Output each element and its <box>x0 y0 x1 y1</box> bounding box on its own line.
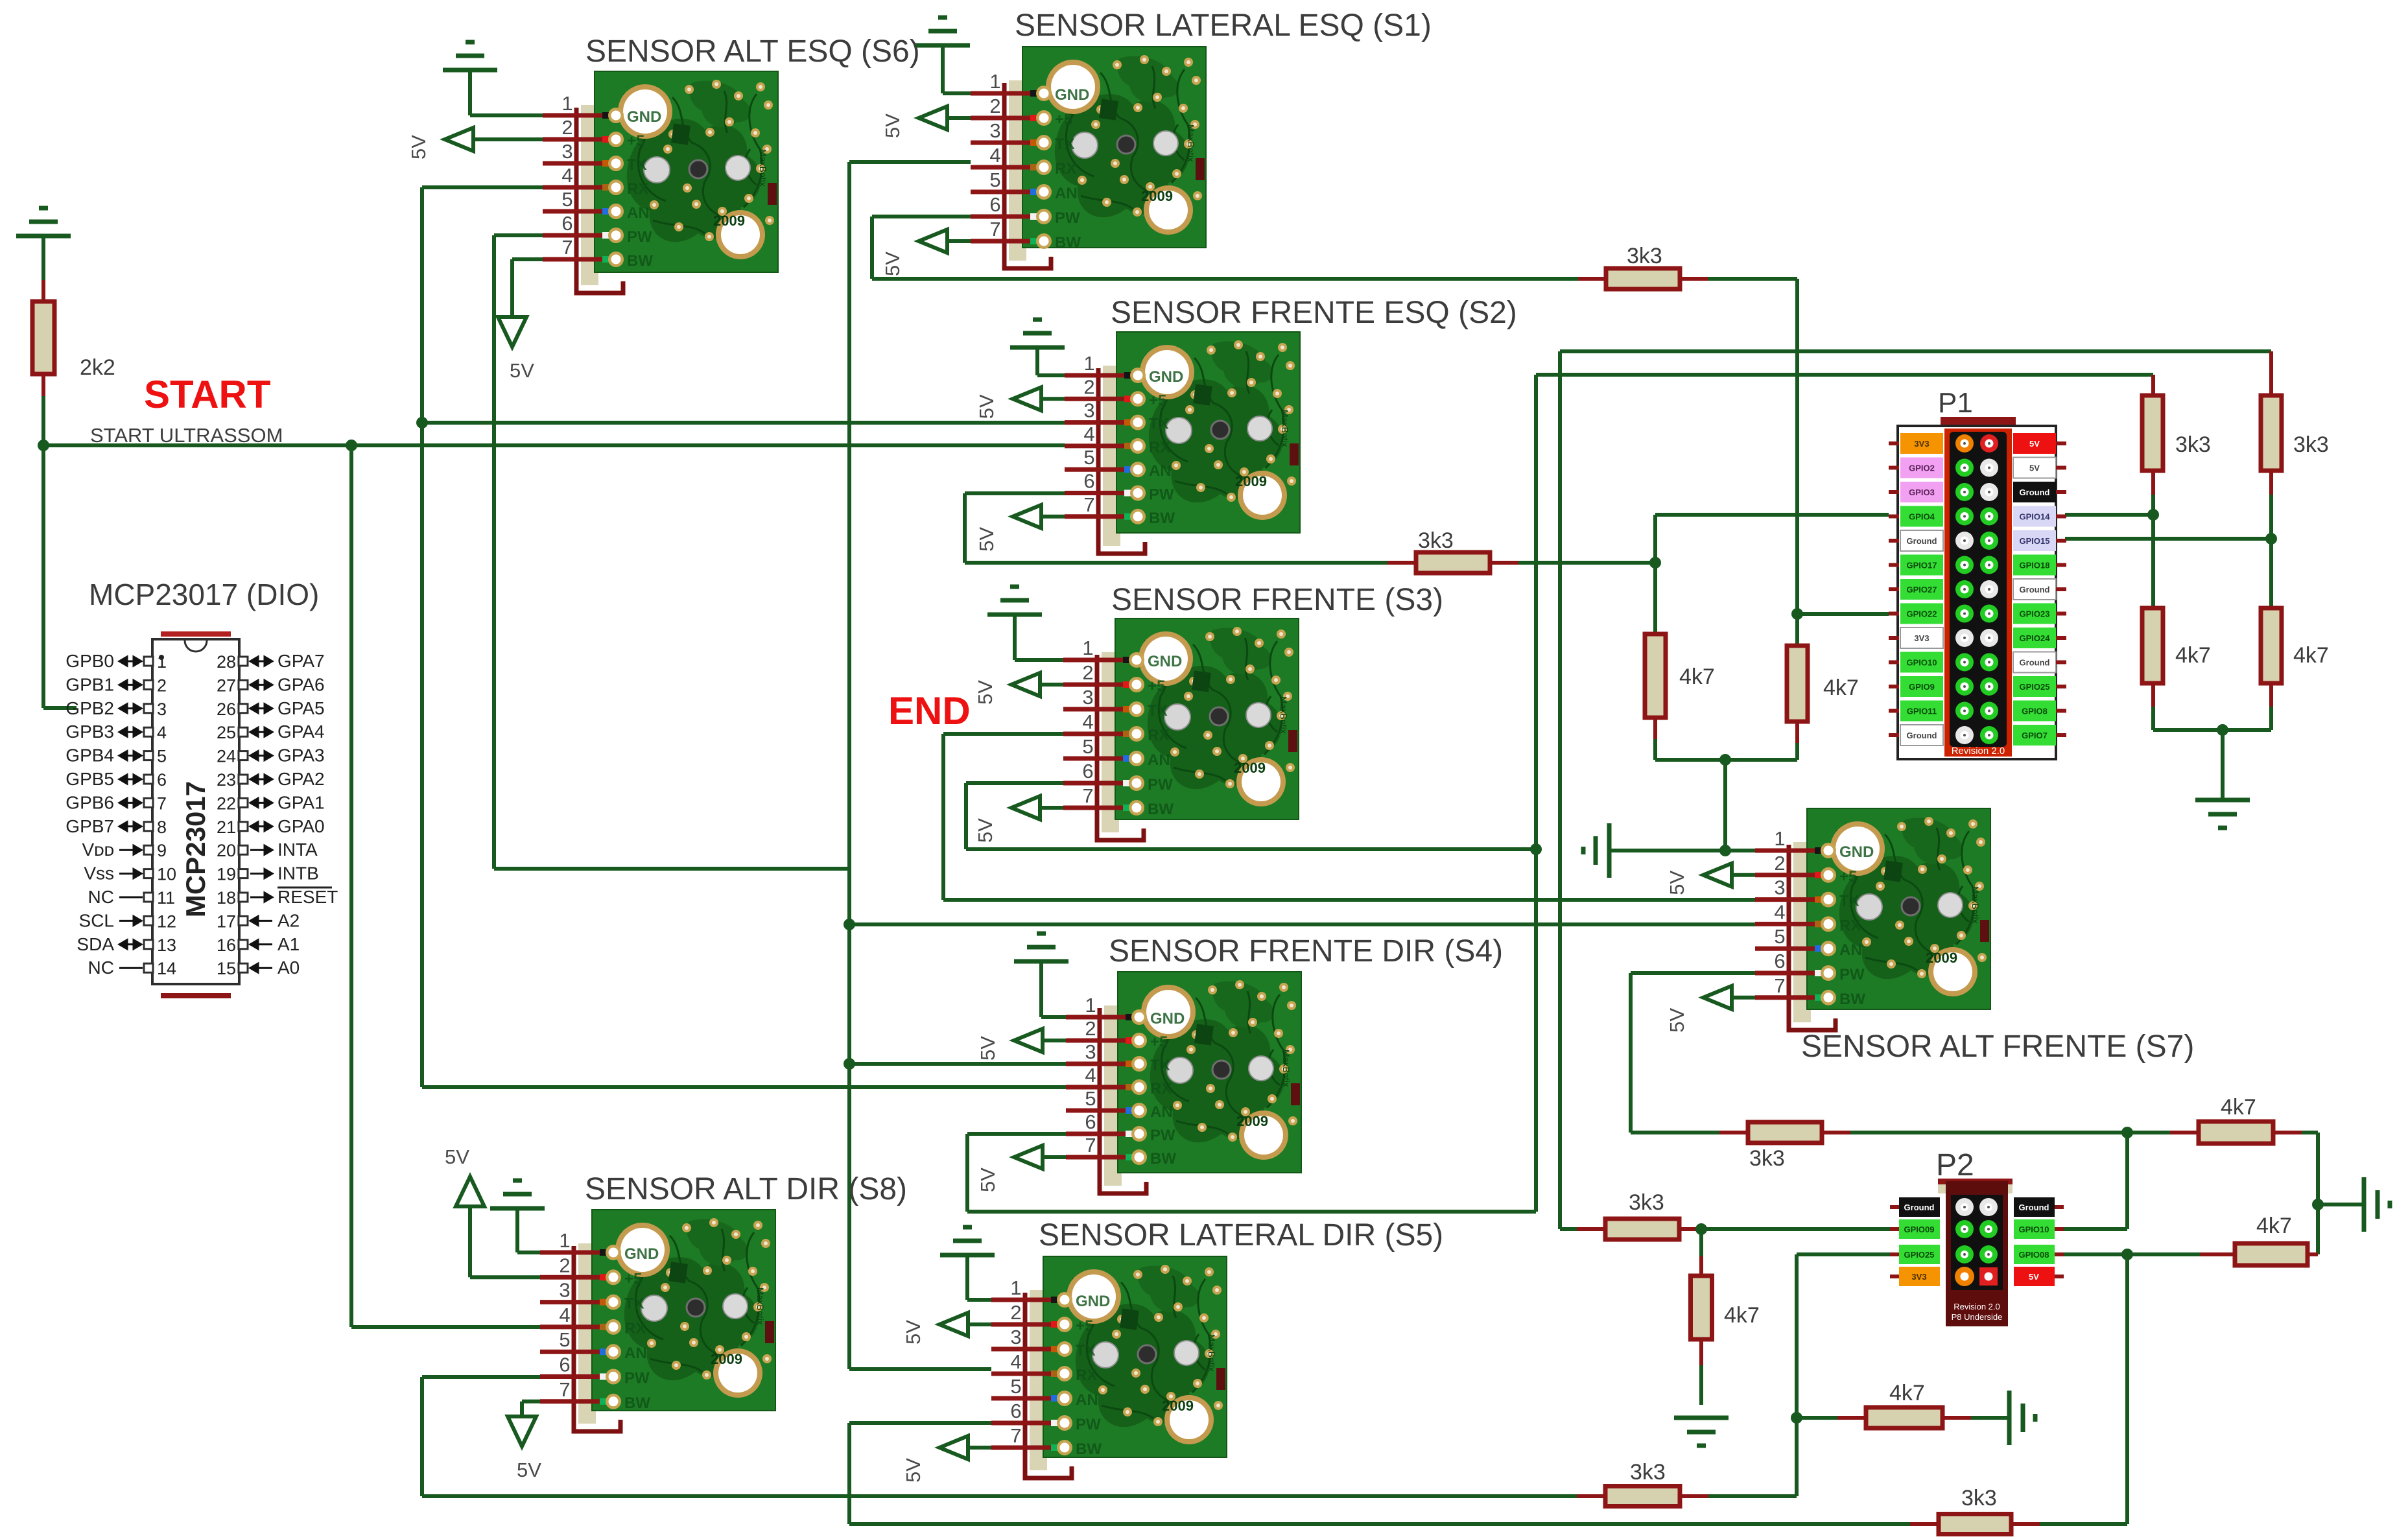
P1 row 4 left label GPIO4 <box>1900 506 1943 527</box>
P2 row 1 left label Ground <box>1899 1197 1940 1217</box>
P1 row 13 left label Ground <box>1900 725 1943 746</box>
ground under P2 left 4k7 <box>1674 1418 1729 1446</box>
svg-text:GPIO2: GPIO2 <box>1909 464 1935 473</box>
wire 5V arrow to S6 pin2 <box>472 137 543 141</box>
power 5V arrow for S3 pin2 <box>1011 673 1040 696</box>
svg-text:+5: +5 <box>1839 868 1857 886</box>
MCP23017 pin 26 (right) <box>239 704 248 713</box>
wire B bottom run <box>849 1522 1910 1526</box>
svg-text:5V: 5V <box>1666 871 1688 895</box>
sensor S3 pin 6 stub <box>1063 781 1132 786</box>
wire vertical 3281 lower segment to 3k3 B <box>2125 1254 2129 1524</box>
svg-text:SENSOR LATERAL ESQ (S1): SENSOR LATERAL ESQ (S1) <box>1015 8 1432 43</box>
svg-text:RX: RX <box>1149 439 1170 456</box>
wire 3k3 row1747 to junction 3281 <box>1850 1131 2127 1134</box>
sensor S6 pin 4 stub <box>543 185 611 190</box>
P1 row 4 right label GPIO14 <box>2013 506 2056 527</box>
svg-text:Ground: Ground <box>2020 658 2050 668</box>
svg-text:RX: RX <box>1150 1080 1172 1098</box>
sensor S3 pin 5 stub <box>1063 757 1132 761</box>
svg-text:6: 6 <box>1082 760 1093 782</box>
resistor lead 3k3 number2 top <box>2269 351 2273 395</box>
sensor S3 pin 2 stub <box>1063 683 1132 687</box>
resistor lead 3k3 B left <box>1910 1522 1939 1526</box>
svg-text:2: 2 <box>1774 852 1785 875</box>
sensor S8 connector strip <box>578 1243 596 1424</box>
wire 5V arrow to S7 pin2 <box>1730 873 1755 877</box>
wire S7 ground node to sideways ground <box>1609 849 1725 852</box>
sensor S6 module (SENSOR ALT ESQ (S6)) <box>543 34 920 293</box>
resistor lead right 3k3 top <box>1680 277 1708 281</box>
sensor S6 PCB <box>595 71 778 272</box>
sensor S6 pin 1 stub <box>543 113 611 118</box>
junction 2771 centre 4k7 <box>1791 1412 1802 1424</box>
svg-text:Revision 2.0: Revision 2.0 <box>1954 1302 2000 1311</box>
svg-text:START ULTRASSOM: START ULTRASSOM <box>90 424 283 447</box>
svg-text:GPIO10: GPIO10 <box>1907 658 1937 668</box>
MCP23017 pin 16 (right) <box>239 940 248 949</box>
resistor lead 3k3 row1747 right <box>1822 1131 1850 1134</box>
sensor S6 pin 3 stub <box>543 161 611 166</box>
svg-text:7: 7 <box>1774 974 1785 997</box>
wire ground to S1 pin1 <box>941 45 945 93</box>
wire GPIO14 down to 4k7 number1 <box>2151 515 2155 608</box>
wire S6 pin6 down to bus <box>494 233 543 237</box>
svg-text:3k3: 3k3 <box>2293 432 2329 457</box>
P1 row 2 left label GPIO2 <box>1900 458 1943 478</box>
sensor S2 pin 4 stub <box>1065 443 1133 448</box>
svg-text:1: 1 <box>989 70 1000 93</box>
sensor S2 connector strip <box>1103 366 1120 546</box>
wire centre 4k7 to sideways ground <box>1971 1416 2009 1420</box>
svg-text:MCP23017: MCP23017 <box>180 781 211 917</box>
sensor S5 pin 5 stub <box>991 1396 1060 1401</box>
wire S8 pin6 down <box>422 1375 540 1379</box>
svg-text:BW: BW <box>1076 1440 1102 1458</box>
svg-text:RESET: RESET <box>277 887 338 907</box>
resistor R4 3k3 right column1 <box>2142 395 2163 471</box>
svg-text:SENSOR FRENTE ESQ (S2): SENSOR FRENTE ESQ (S2) <box>1111 296 1517 330</box>
sensor S1 pin 7 stub <box>971 239 1039 244</box>
wire 5V arrow to S3 pin7 <box>1039 806 1063 810</box>
wire chain vertical x=651 <box>420 187 424 1087</box>
wire P2-left pulldown down <box>1699 1229 1703 1256</box>
svg-text:7: 7 <box>1082 784 1093 807</box>
svg-text:5V: 5V <box>510 359 534 382</box>
P1 row 8 left label GPIO22 <box>1900 604 1943 624</box>
svg-text:GPB4: GPB4 <box>65 746 114 766</box>
svg-text:1: 1 <box>1082 637 1093 659</box>
resistor lead 3k3 number1 bottom <box>2151 471 2155 495</box>
svg-text:+5: +5 <box>624 1270 642 1287</box>
sensor S5 connector strip <box>1030 1290 1047 1470</box>
sensor S6 pin 5 stub <box>543 209 611 214</box>
wire S7 pin6 to vertical 2515 <box>1631 971 1755 975</box>
wire 4k7 bottoms joining <box>1655 758 1797 762</box>
svg-text:21: 21 <box>217 817 236 837</box>
resistor lead 3k3 A right <box>1680 1494 1708 1498</box>
P1 row 1 left label 3V3 <box>1900 433 1943 454</box>
wire 5V arrow to S1 pin7 <box>946 239 971 243</box>
svg-text:2: 2 <box>157 676 167 695</box>
svg-text:TX: TX <box>1148 702 1168 720</box>
svg-text:23: 23 <box>217 770 236 790</box>
wire top run to 3k3 number1 <box>1536 373 2153 377</box>
P1 row 1 right label 5V <box>2013 433 2056 454</box>
wire S2 pin6 to 3k3 mid <box>965 491 1065 495</box>
svg-text:GPIO3: GPIO3 <box>1909 488 1935 497</box>
sensor S7 pin 3 stub <box>1755 897 1824 902</box>
svg-text:Ground: Ground <box>1904 1203 1935 1212</box>
sensor S1 PCB <box>1022 47 1206 248</box>
wire S5 pin6 down <box>849 1421 991 1425</box>
junction S7 ground node <box>1719 845 1731 856</box>
svg-text:7: 7 <box>1085 1134 1096 1157</box>
svg-text:+5: +5 <box>1055 111 1072 128</box>
sensor S3 PCB <box>1115 618 1299 819</box>
sensor S6 pin 7 stub <box>543 257 611 262</box>
wire P1 GPIO15 row <box>2065 537 2271 541</box>
wire 3k3 P2-left to P2 GPIO row2 <box>1701 1227 1890 1231</box>
wire 4k7 bottoms to ground stem <box>2153 728 2271 732</box>
P1 row 3 left label GPIO3 <box>1900 482 1943 502</box>
svg-text:5: 5 <box>157 747 167 766</box>
svg-text:1: 1 <box>1774 827 1785 850</box>
svg-text:4: 4 <box>1010 1350 1021 1373</box>
svg-text:AN: AN <box>1055 185 1078 202</box>
sensor S1 connector strip <box>1009 80 1026 261</box>
MCP23017 pin 28 (right) <box>239 657 248 666</box>
sensor S8 pin 1 stub <box>540 1251 609 1255</box>
P1 row 12 right label GPIO8 <box>2013 701 2056 722</box>
sensor S2 module (SENSOR FRENTE ESQ (S2)) <box>1065 296 1517 554</box>
sensor S7 connector strip <box>1793 842 1811 1022</box>
resistor R15 4k7 centre <box>1866 1407 1942 1428</box>
svg-text:3: 3 <box>1085 1040 1096 1063</box>
svg-text:2: 2 <box>1085 1017 1096 1040</box>
svg-text:GPA4: GPA4 <box>277 722 325 742</box>
MCP23017 pin 11 (left) <box>144 893 153 902</box>
svg-text:BW: BW <box>627 252 653 270</box>
wire down to S7 ground node <box>1723 760 1727 851</box>
svg-text:GPIO25: GPIO25 <box>2020 682 2050 692</box>
svg-text:+5: +5 <box>1076 1317 1093 1335</box>
wire centre 4k7 left lead <box>1797 1416 1837 1420</box>
svg-text:Ground: Ground <box>1907 731 1937 740</box>
sensor S2 pin 7 stub <box>1065 514 1133 519</box>
sensor S4 pin 2 stub <box>1066 1039 1135 1043</box>
power 5V arrow for S6 pin2 <box>445 128 473 151</box>
svg-text:GND: GND <box>1055 86 1089 104</box>
svg-text:6: 6 <box>1085 1110 1096 1133</box>
svg-text:SENSOR ALT FRENTE (S7): SENSOR ALT FRENTE (S7) <box>1801 1029 2194 1064</box>
sensor S5 pin 6 stub <box>991 1421 1060 1426</box>
wire ground to S3 pin1 <box>1013 615 1017 660</box>
wire S6 pin4 to chain vertical <box>422 185 543 189</box>
P1 row 12 left label GPIO11 <box>1900 701 1943 722</box>
wire to sideways ground right <box>2318 1203 2364 1206</box>
resistor R6 4k7 right column1 <box>2142 608 2163 683</box>
svg-text:2k2: 2k2 <box>80 355 115 380</box>
power 5V arrow for S4 pin2 <box>1014 1029 1043 1052</box>
P1 row 7 pin holes <box>1955 580 1974 598</box>
sensor S4 PCB <box>1118 972 1301 1173</box>
svg-text:3: 3 <box>561 140 572 163</box>
svg-text:GPA6: GPA6 <box>277 674 325 694</box>
svg-text:INTB: INTB <box>277 863 319 884</box>
P1 row 7 left label GPIO27 <box>1900 579 1943 600</box>
MCP23017 pin 17 (right) <box>239 916 248 925</box>
ground at 2k2 top <box>16 208 71 236</box>
svg-text:5V: 5V <box>975 394 998 419</box>
sensor S3 pin 1 stub <box>1063 658 1132 663</box>
junction START net at 2k2 <box>38 440 49 451</box>
svg-text:+5: +5 <box>1149 392 1166 409</box>
svg-text:GPIO9: GPIO9 <box>1909 682 1935 692</box>
P1 row 2 pin holes <box>1955 459 1974 477</box>
svg-text:TX: TX <box>1055 135 1075 153</box>
junction RX bus at S7 pin4 branch <box>844 919 855 930</box>
resistor lead 4k7 number2 bottom <box>2269 684 2273 707</box>
MCP23017 pin 8 (left) <box>144 822 153 831</box>
svg-text:5V: 5V <box>902 1458 925 1483</box>
wire chain branch to S2 pin3 <box>422 421 1065 425</box>
svg-text:Vss: Vss <box>84 863 114 884</box>
svg-text:5: 5 <box>559 1328 570 1351</box>
resistor R10 3k3 row1747 <box>1748 1122 1822 1143</box>
svg-text:3: 3 <box>1083 399 1094 422</box>
svg-text:GPIO8: GPIO8 <box>2022 707 2048 716</box>
P1 row 4 pin holes <box>1955 508 1974 526</box>
MCP23017 pin 23 (right) <box>239 775 248 784</box>
svg-text:Revision 2.0: Revision 2.0 <box>1952 746 2005 757</box>
MCP23017 pin 22 (right) <box>239 798 248 807</box>
svg-text:4k7: 4k7 <box>2256 1214 2292 1238</box>
svg-text:24: 24 <box>217 747 236 766</box>
svg-text:4k7: 4k7 <box>2293 643 2329 668</box>
svg-text:5V: 5V <box>2029 439 2040 449</box>
svg-text:6: 6 <box>1010 1400 1021 1422</box>
wire 3k3 top to vertical 2772 <box>1708 277 1797 281</box>
power 5V arrow for S7 pin7 <box>1703 986 1732 1009</box>
sensor S5 pin 1 stub <box>991 1298 1060 1302</box>
svg-text:+5: +5 <box>1150 1033 1168 1051</box>
MCP23017 pin 14 (left) <box>144 963 153 972</box>
ground for sensor S2 <box>1010 320 1065 347</box>
junction RX bus at S4 pin3 branch <box>844 1058 855 1070</box>
svg-text:SCL: SCL <box>79 910 114 930</box>
wire 4k7 mid-right to junction 3281 <box>2127 1252 2200 1256</box>
junction 4k7 bottoms <box>1719 754 1731 766</box>
svg-text:3: 3 <box>1082 686 1093 709</box>
wire 4k7-left column vertical <box>1653 515 1657 634</box>
P1 row 11 left label GPIO9 <box>1900 676 1943 697</box>
svg-text:1: 1 <box>157 652 167 672</box>
svg-text:RX: RX <box>1055 160 1076 178</box>
sensor S2 pin 5 stub <box>1065 467 1133 472</box>
sensor S7 pin 1 stub <box>1755 849 1824 853</box>
junction 3281/1935 <box>2121 1249 2133 1260</box>
svg-text:7: 7 <box>561 236 572 259</box>
svg-text:SENSOR ALT DIR (S8): SENSOR ALT DIR (S8) <box>585 1172 907 1206</box>
resistor R8 4k7 under P1 left <box>1645 634 1666 718</box>
sensor S4 pin 5 stub <box>1066 1109 1135 1113</box>
svg-text:3: 3 <box>157 699 167 719</box>
svg-text:GND: GND <box>627 108 661 126</box>
svg-text:5: 5 <box>1083 446 1094 469</box>
sensor S2 PCB <box>1116 332 1300 533</box>
junction chain at S2 pin3 branch <box>416 417 428 429</box>
svg-text:Ground: Ground <box>2019 1203 2049 1212</box>
P1 row 8 pin holes <box>1955 605 1974 623</box>
P1 row 5 left label Ground <box>1900 530 1943 551</box>
wire 5V arrow to S3 pin2 <box>1039 683 1063 687</box>
wire vertical 2369 <box>1534 375 1538 1212</box>
junction GPIO4 column <box>1649 557 1661 569</box>
svg-text:4k7: 4k7 <box>1889 1381 1925 1405</box>
power 5V arrow for S1 pin2 <box>919 106 947 130</box>
svg-text:12: 12 <box>157 911 176 931</box>
svg-text:3: 3 <box>559 1279 570 1302</box>
wire vertical 2771 <box>1795 1254 1799 1496</box>
sensor S4 connector strip <box>1104 1005 1122 1186</box>
sensor S5 pin 4 stub <box>991 1372 1060 1376</box>
power 5V arrow for S2 pin2 <box>1013 387 1041 410</box>
sensor S5 pin 2 stub <box>991 1322 1060 1327</box>
ground for sensor S1 <box>915 18 970 45</box>
wire 3k3 mid to GPIO4 column <box>1518 561 1655 565</box>
wire vertical 2772 down to 4k7 <box>1795 279 1799 646</box>
svg-text:Vᴅᴅ: Vᴅᴅ <box>82 840 114 860</box>
MCP23017 pin 25 (right) <box>239 727 248 736</box>
resistor lead left 3k3 top <box>1578 277 1606 281</box>
MCP23017 pin 12 (left) <box>144 916 153 925</box>
resistor lead right 3k3 mid <box>1490 561 1518 565</box>
wire 3k3 A to vertical 2771 <box>1708 1494 1797 1498</box>
P2 row 4 left label 3V3 <box>1899 1267 1940 1286</box>
svg-text:P1: P1 <box>1938 387 1973 419</box>
resistor R9 4k7 under P1 right <box>1787 646 1808 722</box>
svg-text:PW: PW <box>1149 486 1174 504</box>
svg-text:+5: +5 <box>627 132 644 150</box>
wire P1 GPIO4 row to 4k7-left column <box>1655 513 1889 517</box>
svg-text:5: 5 <box>1774 925 1785 948</box>
ground for sensor S5 <box>940 1227 995 1255</box>
svg-text:5V: 5V <box>2029 1272 2039 1282</box>
svg-text:19: 19 <box>217 865 236 884</box>
sensor S3 pin 3 stub <box>1063 707 1132 712</box>
svg-text:A1: A1 <box>277 934 300 954</box>
sensor S8 pin 4 stub <box>540 1324 609 1329</box>
svg-text:P2: P2 <box>1936 1148 1974 1182</box>
power 5V arrow for S4 pin7 <box>1014 1145 1043 1169</box>
svg-text:5V: 5V <box>881 113 904 138</box>
P1 row 10 left label GPIO10 <box>1900 652 1943 673</box>
svg-text:GPB2: GPB2 <box>65 698 114 718</box>
ground for sensor S4 <box>1014 934 1068 961</box>
svg-text:TX: TX <box>1839 893 1859 910</box>
MCP23017 pin 5 (left) <box>144 751 153 760</box>
sensor S1 pin 1 stub <box>971 91 1039 96</box>
P1 row 2 right label 5V <box>2013 458 2056 478</box>
svg-text:4: 4 <box>1083 423 1094 445</box>
power 5V up-arrow for S8 pin2 <box>456 1177 484 1206</box>
wire RX bus branch to S7 pin4 <box>849 922 1755 926</box>
P1 row 9 right label GPIO24 <box>2013 628 2056 648</box>
P1 row 6 pin holes <box>1955 556 1974 574</box>
svg-text:3k3: 3k3 <box>1418 528 1454 553</box>
svg-text:BW: BW <box>1839 991 1865 1008</box>
wire START net down to MCP23017 GPB2 <box>41 445 45 708</box>
P1 row 8 right label GPIO23 <box>2013 604 2056 624</box>
svg-text:4: 4 <box>989 144 1000 167</box>
svg-text:17: 17 <box>217 911 236 931</box>
power 5V arrow for S7 pin2 <box>1703 863 1732 887</box>
svg-text:SDA: SDA <box>77 934 114 954</box>
P1 row 5 pin holes <box>1955 532 1974 550</box>
sensor S8 pin 6 stub <box>540 1374 609 1379</box>
resistor lead 4k7 under P1 right col <box>1795 722 1799 743</box>
svg-text:7: 7 <box>1010 1424 1021 1447</box>
svg-text:5V: 5V <box>407 135 430 159</box>
sensor S1 pin 3 stub <box>971 141 1039 145</box>
svg-text:GPIO24: GPIO24 <box>2020 633 2051 643</box>
P2 row 2 pin holes <box>1955 1220 1974 1238</box>
svg-text:2: 2 <box>989 95 1000 117</box>
svg-text:PW: PW <box>1148 776 1173 793</box>
svg-text:1: 1 <box>1010 1276 1021 1299</box>
svg-text:SENSOR LATERAL DIR (S5): SENSOR LATERAL DIR (S5) <box>1039 1218 1443 1252</box>
svg-text:BW: BW <box>1148 801 1174 818</box>
svg-text:3k3: 3k3 <box>1961 1486 1997 1510</box>
svg-text:PW: PW <box>627 228 652 246</box>
MCP23017 pin 9 (left) <box>144 845 153 854</box>
svg-text:4k7: 4k7 <box>2175 643 2211 668</box>
sensor S1 module (SENSOR LATERAL ESQ (S1)) <box>971 8 1432 268</box>
resistor R3 3k3 mid <box>1416 552 1490 573</box>
ground sideways right of centre 4k7 <box>2009 1391 2035 1445</box>
power 5V arrow for S2 pin7 <box>1013 505 1041 528</box>
sensor S3 pin 7 stub <box>1063 806 1132 810</box>
svg-text:SENSOR FRENTE DIR (S4): SENSOR FRENTE DIR (S4) <box>1109 934 1503 969</box>
power 5V arrow for S1 pin7 <box>919 229 947 253</box>
wire A bottom run <box>422 1494 1577 1498</box>
svg-text:2: 2 <box>1082 661 1093 684</box>
svg-text:27: 27 <box>217 676 236 695</box>
svg-text:GPIO4: GPIO4 <box>1909 512 1935 522</box>
wire S4 pin6 to vertical 2369 <box>967 1132 1066 1136</box>
MCP23017 pin 1 (left) <box>144 657 153 666</box>
svg-text:3k3: 3k3 <box>2175 432 2211 457</box>
sensor S1 pin 6 stub <box>971 215 1039 219</box>
svg-text:PW: PW <box>1055 209 1080 227</box>
svg-text:AN: AN <box>1076 1391 1098 1409</box>
junction ground stem right column <box>2217 724 2228 736</box>
svg-text:1: 1 <box>559 1229 570 1252</box>
resistor R1 2k2 <box>41 280 45 301</box>
svg-text:TX: TX <box>1149 416 1169 433</box>
svg-text:5V: 5V <box>976 1168 999 1192</box>
svg-text:4: 4 <box>1082 711 1093 733</box>
svg-text:PW: PW <box>1839 966 1865 983</box>
svg-text:AN: AN <box>1839 941 1862 959</box>
svg-text:4: 4 <box>1085 1064 1096 1087</box>
svg-text:15: 15 <box>217 959 236 978</box>
P1 row 11 right label GPIO25 <box>2013 676 2056 697</box>
svg-text:5V: 5V <box>974 680 997 705</box>
resistor lead 4k7 top-right right <box>2273 1131 2302 1134</box>
wire GPIO15 down to 4k7 number2 <box>2269 539 2273 608</box>
